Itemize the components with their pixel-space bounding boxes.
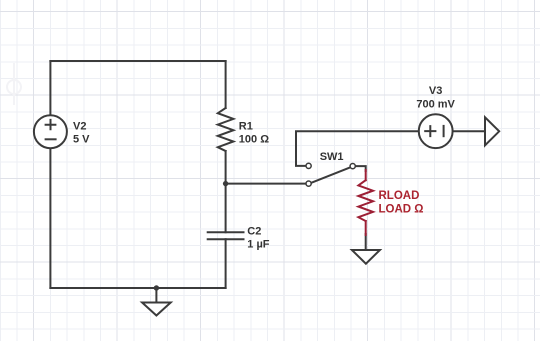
svg-text:C2: C2 <box>247 225 261 237</box>
svg-text:SW1: SW1 <box>320 151 344 163</box>
svg-text:V3: V3 <box>429 85 442 97</box>
svg-text:RLOAD: RLOAD <box>379 190 420 202</box>
svg-text:R1: R1 <box>239 120 253 132</box>
svg-text:LOAD Ω: LOAD Ω <box>379 204 424 216</box>
svg-text:5 V: 5 V <box>73 133 90 145</box>
svg-text:100 Ω: 100 Ω <box>239 133 269 145</box>
svg-text:700 mV: 700 mV <box>416 99 455 111</box>
svg-text:1 µF: 1 µF <box>247 238 270 250</box>
svg-text:V2: V2 <box>73 121 86 133</box>
